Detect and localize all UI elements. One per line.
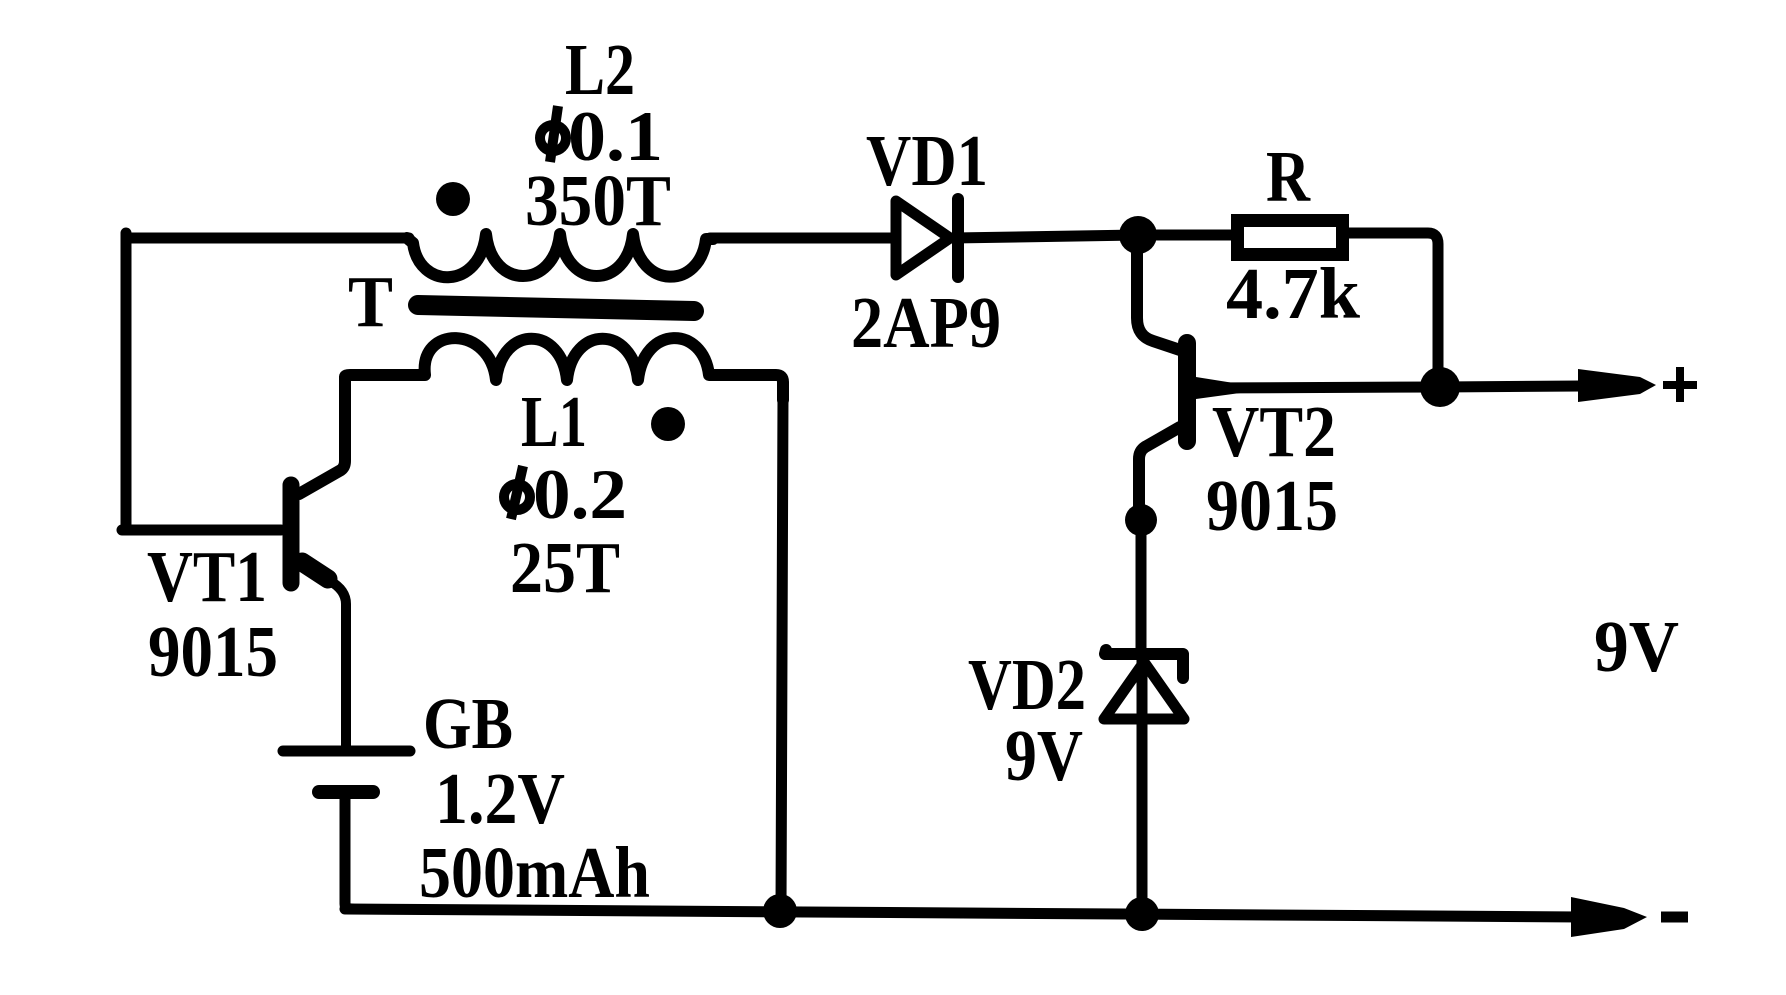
- diode VD1 cathode bar: [952, 199, 964, 277]
- arrow output minus: [1571, 897, 1647, 937]
- svg-text:9015: 9015: [1206, 465, 1338, 546]
- svg-text:T: T: [348, 261, 393, 342]
- wire top-left horizontal: [126, 233, 409, 244]
- zener VD2 triangle: [1104, 662, 1184, 719]
- transistor VT2 base wire from node: [1137, 252, 1180, 350]
- svg-text:350T: 350T: [525, 160, 671, 241]
- phase dot L2: [436, 182, 470, 216]
- svg-text:VT1: VT1: [147, 536, 267, 617]
- transistor VT2 emitter arrow: [1196, 377, 1240, 399]
- svg-text:VD1: VD1: [866, 120, 988, 201]
- svg-text:L1: L1: [521, 381, 587, 462]
- node junction dot under VD1: [1119, 216, 1157, 254]
- plus sign: [1663, 367, 1697, 402]
- wire VT1 base horizontal: [122, 525, 281, 536]
- svg-text:GB: GB: [423, 683, 513, 764]
- label phi 0.2: [504, 456, 627, 534]
- wire output plus: [1197, 386, 1582, 388]
- transistor VT2 collector: [1139, 427, 1180, 512]
- svg-text:9V: 9V: [1594, 606, 1679, 687]
- zener VD2 cathode bar: [1105, 650, 1183, 678]
- wire left vertical: [121, 233, 132, 527]
- resistor R right lead: [1347, 233, 1438, 386]
- svg-text:25T: 25T: [510, 527, 620, 608]
- svg-text:0.2: 0.2: [533, 456, 627, 534]
- transistor VT1 emitter wire down to battery: [330, 581, 346, 746]
- node junction dot output plus: [1420, 367, 1460, 407]
- transistor VT1 collector: [299, 380, 345, 494]
- inductor L1 winding: [345, 338, 783, 400]
- svg-text:VT2: VT2: [1212, 391, 1336, 472]
- svg-text:R: R: [1266, 136, 1311, 217]
- svg-text:4.7k: 4.7k: [1226, 253, 1360, 334]
- transistor VT2 base bar: [1178, 343, 1196, 441]
- svg-text:9V: 9V: [1005, 715, 1083, 796]
- minus sign: [1661, 912, 1688, 923]
- transformer core T: [418, 305, 694, 311]
- node junction dot VD2 bottom: [1125, 897, 1159, 931]
- svg-text:9015: 9015: [148, 611, 278, 692]
- svg-text:500mAh: 500mAh: [419, 832, 650, 913]
- battery GB short plate: [319, 785, 373, 799]
- wire battery to bottom rail: [345, 798, 352, 909]
- battery GB long plate: [283, 746, 410, 757]
- transistor VT1 emitter arrow: [302, 562, 328, 579]
- wire VD1 to node: [953, 235, 1138, 238]
- label phi 0.1: [540, 98, 663, 176]
- node junction dot VT2-VD2: [1125, 504, 1157, 536]
- svg-text:2AP9: 2AP9: [851, 282, 1001, 363]
- arrow output plus: [1578, 369, 1656, 402]
- diode VD1 triangle: [896, 201, 950, 275]
- svg-text:VD2: VD2: [968, 644, 1086, 725]
- wire L1 right vertical: [781, 395, 783, 909]
- wire VD2 upper: [1136, 528, 1147, 650]
- svg-text:1.2V: 1.2V: [435, 758, 565, 839]
- node junction dot L1 bottom: [763, 894, 797, 928]
- wire L2 to VD1: [710, 233, 893, 244]
- inductor L2 winding: [407, 234, 713, 277]
- resistor R body: [1238, 221, 1343, 255]
- phase dot L1: [651, 407, 685, 441]
- wire VD2 lower: [1137, 660, 1148, 908]
- wire bottom rail: [345, 909, 1582, 917]
- transistor VT1 base bar: [283, 485, 300, 583]
- resistor R left lead: [1155, 230, 1233, 241]
